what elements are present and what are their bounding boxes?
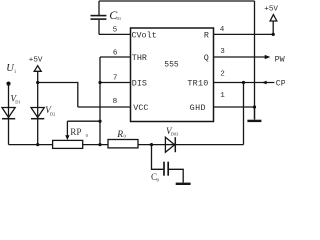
label C0 [151,172,160,183]
svg-text:5: 5 [113,26,118,34]
node junction pin7 tap [98,81,101,84]
label VD2 [45,105,55,116]
svg-text:1: 1 [220,92,225,100]
svg-text:0: 0 [86,133,89,138]
svg-text:6: 6 [113,49,118,57]
wire pin3 Q output to PW [214,56,267,58]
svg-text:CP: CP [276,78,285,88]
svg-text:8: 8 [113,98,118,106]
svg-text:0: 0 [157,178,160,183]
svg-text:7: 7 [113,75,118,83]
svg-text:Q: Q [204,53,209,63]
wire VCC pin8 to chip [78,106,131,108]
wire pin4 R to +5V [214,33,274,35]
svg-text:i: i [14,69,16,75]
node junction bottom rail RP0-R0 [98,143,101,146]
ground under C0 [176,183,191,185]
diode VD03 [165,137,175,152]
ground right stub [254,107,256,119]
svg-text:TR10: TR10 [187,79,208,89]
svg-text:RP: RP [70,127,81,137]
wire pin2 branch vertical [243,83,245,145]
svg-text:GHD: GHD [190,103,206,113]
svg-text:3: 3 [220,48,225,56]
svg-text:CVolt: CVolt [132,31,157,41]
wire diode VD03 to pin2 branch [175,144,243,146]
node junction VD2 bottom [36,143,39,146]
label R0 [116,130,126,140]
label VD03 [166,126,179,137]
diode VD2 [31,107,44,144]
wire pin5 to chip [99,33,131,35]
wire pin2 TR10 to CP [214,82,275,84]
svg-text:R: R [204,31,209,41]
wire wiper to pins6/7 vertical [67,120,100,122]
svg-text:THR: THR [132,53,147,63]
power +5V right symbol [270,15,277,35]
svg-text:0: 0 [124,134,127,139]
node junction pin2 branch [242,81,245,84]
svg-text:VCC: VCC [133,103,148,113]
wire top ground bus from C01 to right rail [99,0,255,2]
node junction wiper tap [98,120,101,123]
power +5V left symbol [34,66,41,108]
diode VD1 [2,107,15,144]
node junction C0 tap [150,143,153,146]
wire C0 to ground [169,169,183,182]
wire pin6 to chip [100,56,131,58]
op-amp U1 555 chip body [131,28,214,122]
label C01 [109,8,122,22]
wire +5V left to VCC branch [38,83,78,108]
capacitor C0 [164,162,168,176]
svg-text:D2: D2 [50,112,55,117]
label RP0 [70,127,88,138]
wire pin1 GHD to ground rail [214,106,255,108]
wire pin7 to chip [100,82,131,84]
node junction +5V left [36,81,39,84]
wire Ui input lead [8,84,10,107]
svg-text:D1: D1 [15,99,20,104]
resistor R0 body [108,140,138,148]
wire bottom rail left segment [9,144,53,146]
arrow CP input [262,81,267,85]
wire bottom rail R0 to diode VD03 [138,144,165,146]
wire C0 branch down from bottom rail [152,145,164,170]
svg-text:01: 01 [117,16,122,21]
wire bottom rail RP0 to R0 [83,144,108,146]
label VD1 [11,94,21,105]
resistor RP0 wiper arrow [65,121,69,140]
ground right (under pin 1) [247,120,261,122]
svg-text:DIS: DIS [132,79,147,89]
svg-text:+5V: +5V [264,6,278,14]
svg-text:D03: D03 [171,131,179,136]
capacitor C01 [91,1,107,34]
node junction pin1 ground [253,105,256,108]
node input Ui terminal [6,82,10,86]
arrow PW output [265,55,271,59]
svg-text:2: 2 [220,70,225,78]
node junction pin4 +5V [272,33,275,36]
svg-text:+5V: +5V [29,57,43,65]
wire right ground rail vertical [254,1,256,119]
svg-text:555: 555 [164,61,179,70]
svg-text:4: 4 [220,26,225,34]
svg-text:PW: PW [275,55,285,65]
wire vertical pins6/7 down to RP0-R0 node [99,57,101,145]
svg-text:R: R [116,130,123,140]
label Ui [6,63,16,75]
resistor RP0 potentiometer body [53,140,83,148]
